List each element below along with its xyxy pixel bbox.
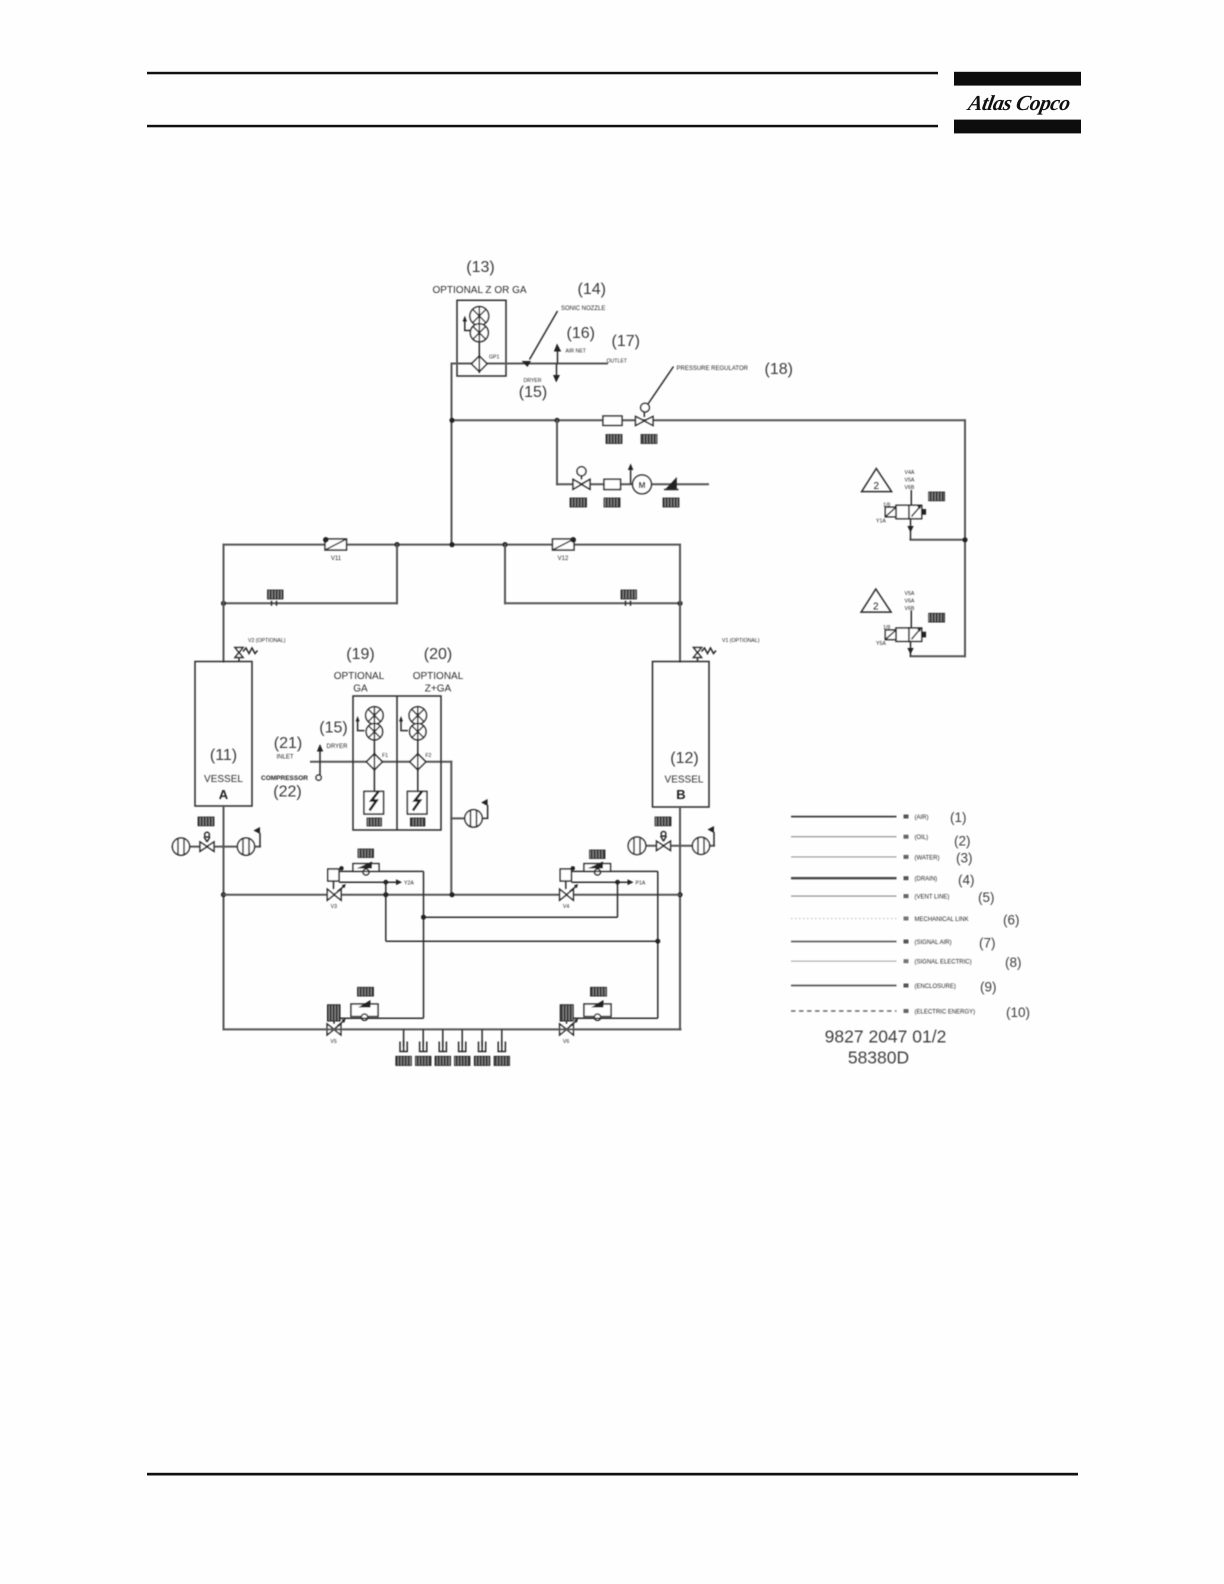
- pilot valve V6: [584, 1000, 611, 1020]
- safety valve V1 on vessel B: [694, 648, 717, 662]
- node Y2A takeoff: [383, 880, 388, 885]
- svg-text:OUTLET: OUTLET: [607, 359, 628, 365]
- wire F2 drop: [417, 770, 419, 792]
- svg-text:V6: V6: [563, 1039, 569, 1045]
- svg-text:(14): (14): [578, 281, 606, 298]
- tag below trap F1: [367, 818, 382, 826]
- air net branch arrow: [554, 344, 561, 364]
- svg-text:A: A: [219, 787, 229, 802]
- tag muffler 1: [396, 1056, 412, 1065]
- wire pilot vertical left x423: [423, 871, 425, 1018]
- svg-text:V6A: V6A: [905, 599, 915, 605]
- node j5: [502, 542, 507, 547]
- svg-text:(6): (6): [1003, 913, 1020, 928]
- vessel A: [195, 662, 252, 807]
- svg-text:(VENT LINE): (VENT LINE): [915, 895, 950, 901]
- svg-text:(ELECTRIC ENERGY): (ELECTRIC ENERGY): [915, 1010, 976, 1016]
- legend line 10 ELECTRIC ENERGY: [791, 1010, 897, 1012]
- orifice ticks right: [626, 601, 631, 606]
- header rule bottom: [147, 125, 938, 128]
- wire bypass left y603: [224, 602, 398, 604]
- wire crossover drop left: [385, 882, 387, 941]
- tag below branch valve: [570, 498, 587, 507]
- node jB: [677, 892, 682, 897]
- wire vessel A drain vertical: [223, 806, 225, 1029]
- svg-text:(5): (5): [978, 890, 995, 905]
- legend line 6 MECHANICAL LINK: [791, 918, 897, 920]
- svg-text:(ENCLOSURE): (ENCLOSURE): [915, 984, 956, 990]
- warning triangle 2 upper: [862, 469, 892, 493]
- wire V11 V12 header: [224, 544, 681, 546]
- svg-text:Atlas Copco: Atlas Copco: [964, 91, 1072, 115]
- tag below vessel B: [655, 817, 671, 826]
- node P1A takeoff: [615, 880, 620, 885]
- svg-text:Y2A: Y2A: [404, 881, 414, 887]
- svg-text:GP1: GP1: [489, 355, 499, 361]
- svg-text:MECHANICAL LINK: MECHANICAL LINK: [915, 917, 969, 923]
- svg-text:F1: F1: [382, 753, 388, 759]
- wire branch vertical x557: [556, 420, 558, 484]
- svg-text:(9): (9): [980, 980, 997, 995]
- arrowhead Y2A: [396, 879, 402, 885]
- legend line 9 ENCLOSURE: [791, 985, 897, 987]
- wire left vertical to vessel A: [223, 545, 225, 662]
- wire signal P1A: [571, 881, 628, 883]
- wire valve1 out to trunk: [911, 539, 966, 541]
- drain valve B: [657, 832, 671, 851]
- drain trap F2: [407, 791, 427, 814]
- svg-text:(19): (19): [346, 646, 374, 663]
- tag below check valve: [663, 498, 679, 507]
- svg-text:(11): (11): [210, 747, 237, 764]
- svg-text:(SIGNAL AIR): (SIGNAL AIR): [915, 940, 952, 946]
- valve V3 body box: [328, 869, 339, 889]
- tag above pilot V4: [590, 850, 606, 859]
- svg-text:(1): (1): [950, 810, 967, 825]
- optional dryers enclosure: [353, 696, 441, 830]
- wire cross line y941: [386, 940, 658, 942]
- wire right trunk: [964, 420, 966, 656]
- svg-text:1/8: 1/8: [883, 625, 890, 631]
- vessel B: [653, 662, 710, 808]
- node j894p: [383, 892, 388, 897]
- Atlas Copco logo: [954, 72, 1081, 134]
- vent circle A left: [172, 838, 189, 855]
- svg-text:PRESSURE REGULATOR: PRESSURE REGULATOR: [677, 366, 749, 372]
- tag above pilot V6: [591, 987, 607, 996]
- svg-text:V2 (OPTIONAL): V2 (OPTIONAL): [248, 638, 286, 644]
- wire bottom main line: [224, 1028, 681, 1030]
- tag below silencer: [606, 435, 622, 444]
- svg-text:2: 2: [874, 481, 880, 492]
- wire crossover main y894: [224, 894, 681, 896]
- vent circle A right: [237, 838, 254, 855]
- node j3: [394, 542, 399, 547]
- svg-text:(15): (15): [519, 384, 547, 401]
- svg-text:INLET: INLET: [276, 755, 293, 761]
- svg-text:Z+GA: Z+GA: [425, 684, 452, 695]
- F1 intake arrow: [356, 716, 365, 731]
- valve V4: [560, 884, 579, 900]
- wire F2 stem: [417, 740, 419, 754]
- wire inlet line: [311, 761, 451, 763]
- F2 compressor stage 1: [409, 707, 426, 724]
- dryer drop arrow: [553, 364, 560, 383]
- tag on left bypass: [268, 590, 284, 599]
- muffler 3: [439, 1029, 446, 1051]
- tag right of valve2: [929, 613, 945, 622]
- node j4: [449, 542, 454, 547]
- pilot valve V3: [353, 862, 379, 876]
- sonic nozzle arrowhead: [522, 361, 532, 367]
- svg-text:(21): (21): [274, 735, 302, 752]
- wire regulator line y420: [452, 419, 966, 421]
- pilot valve V5: [351, 1000, 378, 1020]
- svg-text:SONIC NOZZLE: SONIC NOZZLE: [561, 306, 605, 312]
- F1 compressor stage 2: [366, 724, 382, 740]
- wire crossover drop right: [617, 882, 619, 917]
- muffler 2: [420, 1029, 427, 1051]
- muffler 5: [479, 1029, 486, 1051]
- svg-text:2: 2: [873, 602, 879, 613]
- svg-text:V1 (OPTIONAL): V1 (OPTIONAL): [722, 638, 760, 644]
- svg-text:(12): (12): [670, 750, 698, 767]
- wire vent branch: [451, 817, 465, 819]
- wire pilot line V6: [573, 1017, 658, 1019]
- tag muffler 4: [454, 1056, 470, 1065]
- svg-text:V5A: V5A: [905, 591, 915, 597]
- drain trap F1: [364, 791, 384, 814]
- optional enclosure divider: [396, 696, 398, 830]
- svg-text:COMPRESSOR: COMPRESSOR: [261, 775, 308, 782]
- wire F1 drop: [373, 770, 375, 792]
- filter F2: [410, 753, 426, 772]
- sonic nozzle leader: [530, 311, 558, 360]
- component silencer on y420: [603, 416, 622, 425]
- wire pilot line V4: [571, 870, 657, 872]
- valve V4 body box: [560, 869, 571, 889]
- svg-text:(10): (10): [1006, 1005, 1030, 1020]
- svg-text:VESSEL: VESSEL: [665, 775, 704, 786]
- F1 compressor stage 1: [366, 707, 383, 724]
- drain valve A: [200, 832, 214, 851]
- gauge M with pipe: [628, 464, 652, 494]
- svg-text:V11: V11: [331, 556, 342, 562]
- svg-text:V12: V12: [558, 556, 569, 562]
- svg-text:V3: V3: [331, 904, 337, 910]
- tag below branch orifice: [604, 498, 620, 507]
- svg-text:(OIL): (OIL): [915, 835, 929, 841]
- arrowhead P1A: [628, 879, 634, 885]
- solenoid box V5: [328, 1005, 341, 1021]
- filter GP1: [472, 355, 488, 374]
- node y941: [655, 939, 660, 944]
- orifice ticks left: [272, 601, 277, 606]
- wire vessel B drain vertical: [679, 807, 681, 1029]
- valve V12: [553, 537, 577, 550]
- svg-text:V5A: V5A: [905, 478, 915, 484]
- node jA: [221, 892, 226, 897]
- svg-text:(2): (2): [954, 834, 971, 849]
- svg-text:(17): (17): [612, 333, 640, 350]
- svg-text:OPTIONAL: OPTIONAL: [413, 671, 464, 682]
- wire stem to GP1 filter: [478, 342, 480, 356]
- svg-text:(7): (7): [979, 936, 996, 951]
- labels V4A V5A V6B: [905, 470, 915, 491]
- compressor stage 1 in (13): [470, 307, 489, 326]
- svg-text:(SIGNAL ELECTRIC): (SIGNAL ELECTRIC): [915, 960, 972, 966]
- svg-text:(20): (20): [424, 646, 452, 663]
- muffler 6: [498, 1029, 505, 1051]
- wire F1 stem: [373, 740, 375, 754]
- svg-text:Y5A: Y5A: [876, 641, 886, 647]
- svg-text:(WATER): (WATER): [915, 855, 940, 861]
- wire valve2 out to trunk: [911, 655, 966, 657]
- warning triangle 2 lower: [861, 589, 891, 613]
- wire drain line A: [173, 846, 261, 848]
- solenoid valve Y5A: [885, 611, 926, 657]
- tag right of valve1: [929, 492, 945, 501]
- svg-text:1/8: 1/8: [883, 503, 890, 509]
- svg-text:(18): (18): [765, 361, 793, 378]
- F2 intake arrow: [399, 716, 408, 731]
- svg-text:(DRAIN): (DRAIN): [915, 877, 938, 883]
- tag below trap F2: [410, 818, 425, 826]
- node j2: [554, 418, 559, 423]
- svg-text:(13): (13): [466, 259, 494, 276]
- svg-text:(8): (8): [1005, 955, 1022, 970]
- legend line 2 OIL: [791, 836, 897, 838]
- wire bypass right y603: [505, 602, 680, 604]
- flag B: [708, 826, 715, 846]
- check valve on branch: [664, 477, 679, 490]
- node j7: [677, 601, 682, 606]
- svg-text:(3): (3): [956, 851, 973, 866]
- compressor stage 2 in (13): [470, 324, 488, 342]
- svg-text:(16): (16): [567, 325, 595, 342]
- tag above pilot V3: [358, 849, 374, 858]
- valve V6: [560, 1019, 579, 1035]
- wire bypass drop left: [396, 545, 398, 604]
- solenoid box V6: [560, 1005, 573, 1021]
- wire pilot line V3: [339, 870, 424, 872]
- svg-text:B: B: [676, 787, 685, 802]
- wire drain line B: [629, 845, 715, 847]
- wire vertical from GP1 line: [451, 364, 453, 545]
- svg-text:DRYER: DRYER: [327, 744, 349, 750]
- node j1: [449, 418, 454, 423]
- labels V5A V6A V6B: [905, 591, 915, 612]
- vent circle right of box: [465, 810, 482, 827]
- wire pilot vertical right x657: [657, 871, 659, 1018]
- flag A: [254, 827, 261, 847]
- tag muffler 3: [435, 1056, 451, 1065]
- node V4 corner: [571, 866, 575, 870]
- solenoid valve Y1A: [885, 490, 926, 540]
- svg-text:V5: V5: [330, 1039, 336, 1045]
- filter F1: [366, 753, 382, 772]
- svg-text:P1A: P1A: [636, 881, 646, 887]
- tag muffler 2: [415, 1056, 431, 1065]
- legend line 7 SIGNAL AIR: [791, 941, 897, 943]
- tag below regulator: [641, 435, 657, 444]
- svg-text:AIR NET: AIR NET: [566, 349, 587, 355]
- footer rule: [147, 1473, 1078, 1476]
- component orifice on branch: [604, 479, 621, 489]
- wire right vertical to vessel B: [679, 545, 681, 662]
- tag below vessel A: [198, 817, 214, 826]
- legend line 1 AIR: [791, 816, 897, 818]
- svg-text:V6B: V6B: [905, 485, 915, 491]
- muffler 4: [459, 1029, 466, 1051]
- valve V3: [327, 884, 346, 900]
- tag muffler 5: [474, 1056, 490, 1065]
- svg-text:GA: GA: [353, 684, 368, 695]
- pressure regulator valve: [636, 403, 654, 425]
- wire top main line: [452, 363, 608, 365]
- svg-text:(15): (15): [319, 720, 347, 737]
- svg-text:V4: V4: [563, 904, 569, 910]
- wire pilot line V5: [340, 1017, 424, 1019]
- enclosure box GP1 unit: [457, 300, 506, 376]
- svg-text:V6B: V6B: [905, 606, 915, 612]
- svg-text:9827 2047 01/2: 9827 2047 01/2: [825, 1027, 947, 1047]
- wire cross line y917: [424, 916, 618, 918]
- svg-text:M: M: [638, 480, 645, 490]
- F2 compressor stage 2: [410, 724, 426, 740]
- valve V5: [327, 1019, 346, 1035]
- node trunk j: [962, 537, 967, 542]
- pilot valve V4: [584, 862, 611, 876]
- svg-text:(AIR): (AIR): [915, 815, 929, 821]
- wire signal Y2A: [339, 881, 397, 883]
- node y917: [421, 915, 426, 920]
- wire bypass drop right: [504, 545, 506, 604]
- legend line 5 VENT LINE: [791, 895, 897, 897]
- node j894c: [449, 892, 454, 897]
- node j6: [221, 601, 226, 606]
- legend line 3 WATER: [791, 856, 897, 858]
- valve V11: [323, 537, 347, 550]
- muffler 1: [400, 1029, 407, 1051]
- svg-text:(4): (4): [958, 873, 975, 888]
- dryer marker arrow: [316, 744, 323, 780]
- header rule top: [147, 72, 938, 75]
- safety valve on branch: [573, 467, 590, 490]
- svg-text:VESSEL: VESSEL: [204, 774, 243, 785]
- wire branch line y484: [557, 483, 708, 485]
- svg-text:Y1A: Y1A: [876, 519, 886, 525]
- regulator leader line: [648, 367, 674, 405]
- svg-text:58380D: 58380D: [848, 1048, 909, 1068]
- svg-text:OPTIONAL: OPTIONAL: [334, 671, 385, 682]
- safety valve V2 on vessel A: [235, 648, 258, 662]
- vent circle B left: [628, 837, 646, 855]
- wire dryer out vertical: [450, 762, 452, 895]
- svg-text:(22): (22): [273, 784, 301, 801]
- legend line 8 SIGNAL ELECTRIC: [791, 960, 897, 962]
- svg-text:V4A: V4A: [905, 470, 915, 476]
- node V3 corner: [339, 866, 343, 870]
- svg-text:F2: F2: [425, 753, 431, 759]
- svg-text:OPTIONAL Z OR GA: OPTIONAL Z OR GA: [432, 285, 526, 296]
- vent circle B right: [692, 837, 709, 854]
- legend line 4 DRAIN: [791, 877, 897, 879]
- flag at vent: [481, 799, 487, 818]
- intake arrow in (13): [463, 316, 471, 331]
- tag muffler 6: [494, 1056, 510, 1065]
- tag above pilot V5: [358, 987, 374, 996]
- tag on right bypass: [621, 590, 637, 599]
